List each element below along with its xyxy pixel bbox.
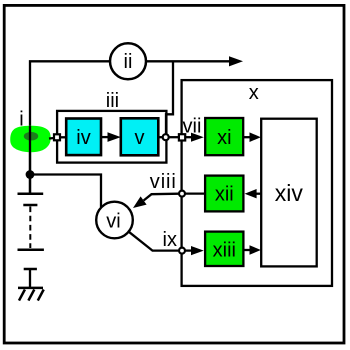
wire node B to node vii bbox=[169, 136, 178, 138]
svg-text:ii: ii bbox=[124, 51, 133, 73]
arrowhead into xiii bbox=[191, 246, 204, 255]
svg-text:i: i bbox=[19, 109, 23, 131]
svg-text:vi: vi bbox=[106, 211, 120, 233]
wire xii to node viii bbox=[185, 192, 205, 194]
junction node A dot bbox=[26, 170, 35, 179]
organ blob i inner spot bbox=[24, 132, 38, 141]
arrowhead into xi bbox=[191, 133, 204, 142]
arrowhead iv to v bbox=[108, 132, 121, 142]
battery plate 2 short bbox=[23, 204, 37, 207]
svg-text:iv: iv bbox=[76, 127, 90, 149]
wire: vertical from node A up and across to meter ii bbox=[30, 61, 110, 193]
svg-text:iii: iii bbox=[106, 90, 119, 112]
svg-text:v: v bbox=[135, 127, 145, 149]
box xiv bbox=[261, 119, 317, 267]
svg-text:xi: xi bbox=[217, 127, 231, 149]
arrowhead into xiv from xi bbox=[250, 132, 261, 142]
wire node A to vi bbox=[30, 175, 101, 208]
box iv bbox=[66, 119, 101, 156]
node B circle on box iii right edge bbox=[163, 134, 169, 140]
ground hatch 2 bbox=[28, 290, 34, 301]
circle vi bbox=[96, 202, 133, 239]
wire vi to node ix bbox=[129, 232, 178, 251]
box x bbox=[182, 80, 332, 286]
arrowhead output bbox=[229, 56, 243, 66]
battery dashed middle wire bbox=[29, 207, 31, 249]
wire xiv to xii bbox=[256, 193, 262, 195]
wire node square to iv bbox=[60, 136, 66, 138]
wire node ix to xiii bbox=[185, 249, 192, 251]
node vii square on box x left edge bbox=[179, 134, 185, 140]
node viii circle on box x left edge bbox=[179, 191, 185, 197]
arrowhead into vi bbox=[133, 196, 147, 208]
wire xiii to xiv bbox=[244, 249, 250, 251]
svg-text:x: x bbox=[249, 82, 259, 104]
ground bar bbox=[18, 287, 43, 290]
svg-text:xii: xii bbox=[215, 184, 234, 206]
arrowhead into xii from xiv bbox=[245, 189, 257, 198]
wire node vii to xi bbox=[185, 136, 192, 138]
arrowhead into xiv from xiii bbox=[250, 245, 261, 255]
box xii bbox=[205, 176, 243, 212]
svg-text:xiv: xiv bbox=[275, 180, 304, 206]
battery plate 4 short bbox=[24, 268, 37, 271]
wire: meter ii output to top-right arrow bbox=[146, 60, 230, 62]
svg-text:xiii: xiii bbox=[213, 239, 236, 261]
organ blob i bbox=[10, 126, 50, 152]
battery plate 3 long bbox=[18, 248, 44, 251]
box v bbox=[121, 118, 159, 155]
wire iv to v bbox=[101, 136, 109, 138]
svg-text:viii: viii bbox=[150, 171, 177, 193]
svg-text:ix: ix bbox=[163, 229, 177, 251]
box iii bbox=[57, 111, 166, 163]
box xi bbox=[205, 118, 243, 155]
meter circle ii bbox=[110, 43, 146, 79]
ground hatch 3 bbox=[38, 290, 44, 301]
box xiii bbox=[205, 232, 243, 266]
ground hatch 1 bbox=[19, 290, 25, 301]
wire xi to xiv bbox=[244, 136, 250, 138]
wire battery to ground bbox=[29, 269, 31, 288]
wire node viii to vi bbox=[144, 194, 179, 201]
wire: branch from top line down to node B bbox=[166, 61, 173, 134]
wire blob i to node square bbox=[49, 137, 54, 140]
wire through blob i bbox=[29, 126, 31, 193]
wire v to node B bbox=[159, 136, 164, 138]
battery plate 1 long bbox=[18, 193, 44, 196]
node square on box iii left edge bbox=[54, 134, 60, 140]
node ix circle on box x left edge bbox=[179, 248, 185, 254]
